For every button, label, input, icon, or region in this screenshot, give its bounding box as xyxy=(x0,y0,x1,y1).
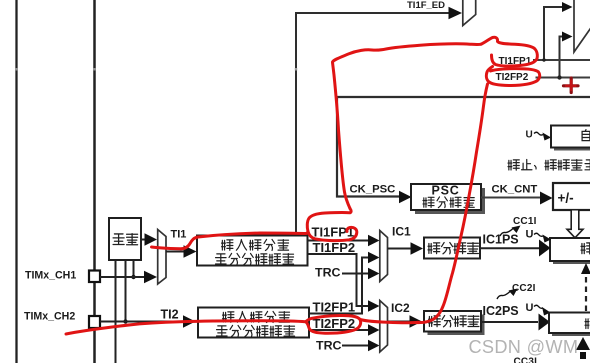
red plus sign xyxy=(564,78,579,93)
mux IC1 xyxy=(380,231,388,282)
red line TI2 with loop around TI2FP2 label xyxy=(66,315,361,334)
hollow arrow counter to capture1 xyxy=(567,211,583,238)
svg-text:IC1: IC1 xyxy=(392,224,411,238)
svg-text:U: U xyxy=(526,130,533,141)
svg-text:CK_CNT: CK_CNT xyxy=(492,184,538,196)
wire: CH1 to TI1 mux xyxy=(100,276,144,278)
capture/compare register 2 box xyxy=(549,313,590,337)
svg-text:CC1I: CC1I xyxy=(513,216,537,227)
svg-text:TIMx_CH1: TIMx_CH1 xyxy=(25,270,76,282)
node: CK_PSC arrowhead xyxy=(399,191,412,203)
mux TI1 selector xyxy=(158,230,166,285)
filter2 box 输入滤波器/和边沿检测器 xyxy=(198,308,309,338)
wire: TI1F_ED path (filter1 top up to trigger mux) xyxy=(296,13,449,236)
wire: TI1FP1 to trigger mux input 1 xyxy=(544,7,563,60)
mux IC2 xyxy=(380,301,388,353)
filter1 box 输入滤波器/和边沿检测器 xyxy=(197,236,308,266)
wire: TI2FP2 to trigger mux input 2 xyxy=(560,37,563,78)
node: arrowhead input2 xyxy=(562,32,573,42)
wires under XOR xyxy=(115,260,117,363)
big box top/left edge + CK_PSC wire xyxy=(337,97,590,197)
U arrow + auto-reload register box xyxy=(526,126,590,151)
svg-text:CC3I: CC3I xyxy=(514,357,538,363)
node: arrowhead input1 xyxy=(562,2,573,12)
label 停止、清除或... xyxy=(508,159,590,170)
svg-text:IC2: IC2 xyxy=(391,301,410,315)
wire: IC2 out xyxy=(388,321,411,323)
red line TI1 across filter1 xyxy=(152,233,307,249)
svg-text:U: U xyxy=(526,302,534,314)
counter +/- box xyxy=(553,183,590,210)
node: junction dots xyxy=(542,58,545,61)
svg-text:TRC: TRC xyxy=(316,338,342,352)
XOR box 异或 xyxy=(109,218,141,260)
svg-text:CK_PSC: CK_PSC xyxy=(350,184,396,196)
wire: CH2 to filter2 xyxy=(100,321,183,323)
wire: chip boundary vertical line xyxy=(93,0,96,363)
red pen: TI1 line + big lasso + label loops xyxy=(66,37,540,334)
faint artifacts on vertical lines xyxy=(15,68,18,71)
IC2 mux input arrowheads xyxy=(368,300,380,312)
svg-text:IC1PS: IC1PS xyxy=(483,233,519,247)
wire TI1FP1 xyxy=(308,240,369,242)
wire: IC1PS to capture1 xyxy=(480,247,539,249)
svg-text:TI2FP2: TI2FP2 xyxy=(496,72,529,83)
svg-text:TI2FP1: TI2FP1 xyxy=(313,299,356,314)
svg-text:IC2PS: IC2PS xyxy=(483,304,519,318)
wire: XOR output to TI1 mux xyxy=(141,239,145,241)
svg-text:U: U xyxy=(526,229,534,241)
up arrow under capture2 xyxy=(576,337,590,350)
mux trigger-selector top right (cut) xyxy=(574,0,590,52)
PSC prescaler box xyxy=(411,184,485,215)
mux TI1F_ED edge-selector (cut at top) xyxy=(463,0,476,26)
svg-text:TIMx_CH2: TIMx_CH2 xyxy=(24,311,75,323)
svg-text:PSC: PSC xyxy=(432,184,460,198)
red circle around TI1FP1 (bottom) xyxy=(307,209,357,241)
IC1 mux input arrowheads xyxy=(368,235,380,247)
wire TI2FP2 xyxy=(309,329,368,331)
wire TRC 1 xyxy=(342,273,368,275)
svg-text:TI1F_ED: TI1F_ED xyxy=(407,0,445,11)
wire: CK_CNT xyxy=(481,197,540,199)
svg-text:TRC: TRC xyxy=(315,265,341,279)
svg-text:TI2: TI2 xyxy=(161,308,179,322)
wire: IC1 out xyxy=(388,248,412,250)
node: CK_CNT arrowhead xyxy=(540,192,553,205)
wire: TI1FP1 horizontal xyxy=(533,59,590,61)
capture/compare register 1 box xyxy=(550,238,590,264)
svg-text:CSDN @WM: CSDN @WM xyxy=(469,337,579,357)
red loop around TI1FP1 (top) xyxy=(481,37,537,66)
prescaler2 box 预分频器 xyxy=(424,311,485,335)
svg-text:+/-: +/- xyxy=(558,191,574,206)
wire TRC 2 xyxy=(342,345,368,347)
wire: left border vertical line xyxy=(15,0,17,363)
red loop around TI2FP2 (top) + tail down xyxy=(486,67,539,86)
wire: TI1 mux out to filter1 xyxy=(166,251,184,253)
wire TI2FP1 (up to IC1 mux in2) xyxy=(309,258,368,314)
up arrow + dashed line under capture1 xyxy=(581,263,590,274)
prescaler1 box 预分频器 xyxy=(424,238,480,259)
svg-text:TI1: TI1 xyxy=(171,229,187,241)
wire: TI2FP2 horizontal xyxy=(536,77,590,79)
node: TI1F_ED arrowhead xyxy=(449,7,463,20)
wire: IC2PS to capture2 xyxy=(481,321,538,323)
wire TI1FP2 (down to IC2 mux in1) xyxy=(308,254,369,306)
red lasso: left side + top sweep xyxy=(333,44,482,209)
